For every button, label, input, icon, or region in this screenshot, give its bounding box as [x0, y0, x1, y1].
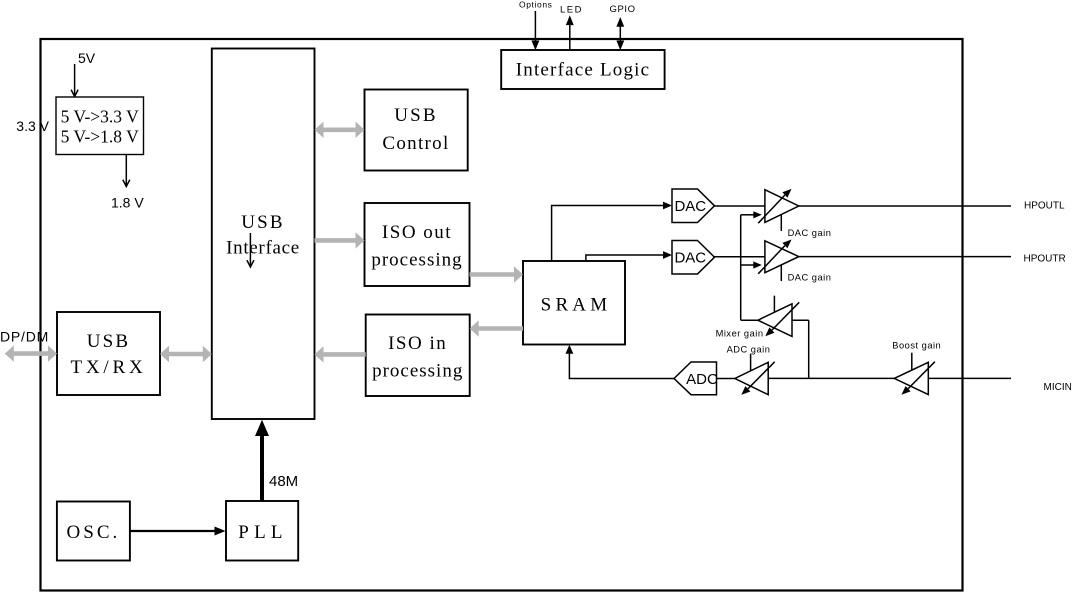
block OSC. — [57, 502, 130, 561]
svg-text:Options: Options — [519, 0, 553, 10]
svg-text:OSC.: OSC. — [67, 522, 121, 543]
chip outer border — [41, 39, 963, 591]
svg-text:ADC: ADC — [686, 371, 718, 388]
svg-text:DP/DM: DP/DM — [0, 329, 49, 345]
svg-text:USB: USB — [87, 331, 131, 352]
bus DP/DM to USB TX/RX (gray double arrow) — [5, 345, 57, 361]
wire Options arrow — [532, 11, 540, 50]
amplifier Mixer gain — [758, 296, 799, 337]
wire mixer output link — [741, 319, 758, 321]
svg-text:DAC gain: DAC gain — [788, 273, 832, 283]
ADC converter — [674, 362, 718, 395]
block ISO in processing — [366, 315, 470, 397]
bus SRAM to ISO in processing (gray arrow left) — [470, 320, 523, 336]
bus ISO in processing to USB Interface (gray arrow left) — [315, 346, 366, 362]
DAC2 converter — [672, 241, 715, 275]
svg-text:processing: processing — [372, 361, 463, 382]
amplifier Boost gain — [894, 353, 935, 395]
wire GPIO arrow — [616, 17, 624, 50]
svg-text:Interface: Interface — [226, 238, 300, 259]
svg-text:DAC: DAC — [674, 249, 706, 266]
svg-text:DAC: DAC — [674, 198, 706, 215]
svg-text:Mixer gain: Mixer gain — [716, 329, 764, 339]
svg-text:DAC gain: DAC gain — [788, 228, 832, 238]
wire HPOUTR output — [799, 256, 1011, 258]
bus USB Interface to USB Control (gray double arrow) — [315, 122, 365, 138]
bus USB Interface to ISO out processing (gray arrow right) — [315, 232, 365, 248]
svg-text:USB: USB — [394, 105, 438, 126]
svg-text:48M: 48M — [269, 473, 298, 490]
svg-text:Boost gain: Boost gain — [892, 340, 941, 350]
svg-text:MICIN: MICIN — [1044, 382, 1072, 393]
amplifier ADC gain — [735, 354, 775, 395]
svg-text:LED: LED — [560, 4, 583, 15]
svg-text:1.8 V: 1.8 V — [111, 195, 144, 211]
amplifier DAC gain L — [758, 189, 799, 231]
svg-text:ISO out: ISO out — [382, 222, 452, 243]
wire SRAM to DAC1 — [552, 202, 672, 261]
svg-text:3.3 V: 3.3 V — [16, 118, 49, 134]
wire OSC to PLL arrow — [130, 527, 226, 536]
svg-text:GPIO: GPIO — [610, 4, 636, 15]
bus ISO out processing to SRAM (gray arrow right) — [470, 266, 524, 282]
wire 48M clock arrow PLL to USB Interface — [255, 420, 269, 501]
wire 1.8V arrow — [123, 155, 130, 187]
svg-text:5V: 5V — [78, 50, 96, 66]
wire LED arrow — [566, 15, 574, 50]
block PLL — [226, 501, 298, 561]
svg-text:5 V->1.8 V: 5 V->1.8 V — [61, 126, 139, 146]
block voltage regulator 5V to 3.3V / 1.8V — [56, 97, 144, 155]
wire DAC1 to amp1 — [715, 205, 765, 207]
wire mixer to amp2 stub — [741, 261, 762, 268]
svg-text:5 V->3.3 V: 5 V->3.3 V — [61, 107, 139, 127]
svg-text:Control: Control — [382, 133, 449, 154]
svg-text:Interface Logic: Interface Logic — [516, 60, 651, 81]
block USB TX/RX — [57, 312, 160, 395]
block Interface Logic — [501, 50, 664, 89]
wire 5V arrow — [71, 64, 78, 97]
wire mixer input from mic tap — [792, 320, 809, 378]
wire ADC amp to ADC — [717, 378, 735, 380]
block USB Interface — [212, 49, 315, 420]
wire SRAM to DAC2 — [586, 251, 672, 261]
wire MICIN input — [928, 377, 1011, 379]
svg-text:HPOUTL: HPOUTL — [1024, 201, 1065, 212]
block USB Control — [365, 90, 468, 171]
svg-text:USB: USB — [241, 212, 285, 233]
DAC1 converter — [672, 189, 715, 223]
svg-text:ADC gain: ADC gain — [727, 344, 771, 354]
svg-text:TX/RX: TX/RX — [71, 357, 147, 378]
block SRAM — [523, 261, 625, 345]
svg-text:ISO in: ISO in — [388, 333, 447, 354]
svg-text:HPOUTR: HPOUTR — [1024, 254, 1066, 265]
block ISO out processing — [365, 203, 470, 286]
wire ADC to SRAM — [566, 345, 675, 379]
wire mixer to amp1 stub — [741, 211, 762, 218]
wire HPOUTL output — [799, 205, 1011, 207]
svg-text:SRAM: SRAM — [541, 295, 612, 316]
svg-text:PLL: PLL — [238, 522, 287, 543]
wire mixer feed vertical — [740, 215, 742, 320]
amplifier DAC gain R — [758, 240, 799, 282]
wire DAC2 to amp2 — [715, 256, 765, 258]
wire boost amp to ADC amp — [768, 377, 894, 379]
bus USB TX/RX to USB Interface (gray double arrow) — [160, 346, 212, 362]
wire USB Interface internal down arrow — [247, 233, 254, 267]
svg-text:processing: processing — [371, 250, 462, 271]
